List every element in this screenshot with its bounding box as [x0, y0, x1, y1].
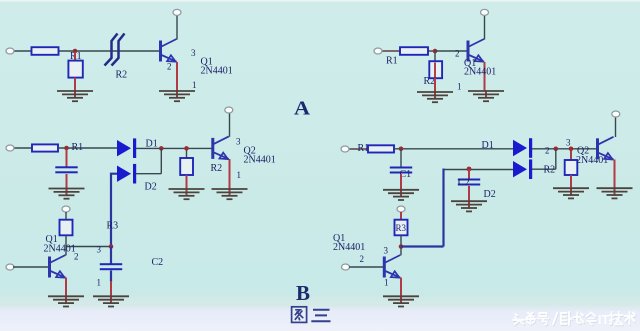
transistor Q1 (A-left)	[161, 39, 177, 62]
wire stem R top (B-right lower)	[400, 212, 402, 220]
svg-text:C2: C2	[458, 178, 470, 189]
resistor R1 (B-right)	[368, 145, 394, 152]
wire stem R bottom (B-right)	[570, 175, 572, 188]
node junction B-left	[64, 146, 69, 151]
resistor R1 (A-left)	[68, 61, 82, 78]
node junction R bias (B-right)	[569, 147, 574, 152]
wire D2 cathode (B-right)	[532, 168, 556, 170]
terminal collector Q1 (A-left)	[173, 9, 181, 15]
wire vertical D1-D2 (B-right)	[555, 149, 557, 169]
char 头	[513, 314, 524, 325]
wire stem R2 bottom (A-right)	[434, 78, 436, 92]
resistor bias (B-right)	[565, 160, 578, 175]
wire stem R2 top (A-right)	[434, 52, 436, 62]
diode D1 (B-right)	[513, 138, 532, 158]
wire collector Q2 (B-right)	[615, 116, 617, 137]
wire input B-left	[13, 147, 32, 149]
transistor Q1 (A-right)	[468, 39, 484, 62]
wire collector Q1 (B-right lower)	[400, 247, 402, 256]
svg-text:3: 3	[384, 246, 389, 256]
wire D2 cathode (B-left)	[136, 173, 161, 175]
node junction A-left	[73, 49, 78, 54]
slash	[553, 313, 558, 325]
capacitor C1 (B-left)	[55, 166, 77, 173]
wire stem R2 bottom (B-left)	[186, 175, 188, 189]
capacitor C1 (B-right)	[390, 167, 412, 174]
svg-text:2: 2	[455, 49, 460, 59]
svg-text:R2: R2	[544, 165, 556, 176]
svg-text:2: 2	[167, 62, 172, 72]
svg-text:1: 1	[237, 170, 242, 180]
terminal input A-right	[374, 48, 382, 54]
ground under Q1 (A-right)	[468, 91, 504, 101]
svg-text:A: A	[294, 98, 311, 120]
ground under Q1 (A-left)	[159, 91, 195, 101]
svg-text:2N4401: 2N4401	[576, 155, 608, 166]
svg-text:2N4401: 2N4401	[44, 243, 76, 254]
wire emitter Q1 to ground (B-left lower)	[65, 278, 67, 297]
node junction C2 (B-right)	[467, 167, 472, 172]
svg-text:1: 1	[384, 278, 389, 288]
wire stem C2 top (B-right)	[468, 169, 470, 179]
transistor Q2 (B-left)	[213, 136, 229, 159]
terminal input B-right	[341, 146, 349, 152]
resistor R2 symbol (A-left)	[105, 34, 125, 66]
terminal R top (B-left lower)	[62, 206, 70, 212]
wire resistor to node (B-left lower)	[65, 235, 67, 246]
ground under R1 (A-left)	[57, 91, 93, 101]
ground under Q2 (B-left)	[212, 189, 248, 199]
ground under R2 (B-left)	[169, 189, 205, 199]
svg-text:R2: R2	[211, 163, 223, 174]
char 号	[538, 313, 549, 325]
wire input A-right	[381, 50, 435, 52]
terminal input B-left	[6, 145, 14, 151]
wire emitter Q2 to ground (B-left)	[229, 159, 231, 189]
wire vertical feedback (B-right)	[442, 169, 444, 247]
capacitor C2 (B-right)	[458, 179, 480, 186]
wire emitter Q1 to ground (A-left)	[176, 62, 178, 91]
wire stem C2 bottom (B-right)	[468, 186, 470, 201]
svg-text:3: 3	[236, 137, 241, 147]
svg-text:R3: R3	[396, 223, 407, 233]
ground under Q1 (B-right lower)	[383, 296, 419, 306]
svg-text:3: 3	[97, 245, 102, 255]
resistor bias (B-right lower)	[395, 220, 408, 236]
wire node row (B-left lower)	[66, 246, 111, 248]
ground under C1 (B-right)	[383, 190, 419, 200]
char 会	[587, 313, 596, 325]
wire D1 cathode row (B-right)	[532, 148, 598, 150]
resistor R2 (A-right)	[429, 61, 442, 78]
svg-text:D2: D2	[145, 182, 157, 193]
svg-text:C2: C2	[152, 257, 164, 268]
terminal collector Q2 (B-left)	[225, 107, 233, 113]
char 龙	[574, 313, 584, 324]
wire stem through R2 (A-right)	[434, 63, 436, 78]
svg-text:B: B	[296, 281, 310, 305]
svg-text:1: 1	[192, 80, 197, 90]
svg-text:D2: D2	[484, 189, 496, 200]
wire stem R1 top (A-left)	[74, 52, 76, 61]
char 卧	[561, 312, 572, 325]
wire stem R2 top (B-left)	[186, 148, 188, 158]
node R2 junction (B-left)	[184, 146, 189, 151]
resistor series (A-left)	[32, 47, 59, 55]
resistor bias (B-left lower)	[60, 220, 73, 236]
diode D2 (B-right)	[513, 159, 532, 179]
node junction (B-right lower)	[399, 244, 404, 249]
wire stem R top (B-left lower)	[65, 212, 67, 220]
node junction A-right	[433, 49, 438, 54]
ground under Q1 (B-left lower)	[48, 296, 84, 306]
svg-text:R1: R1	[72, 142, 84, 153]
svg-text:2: 2	[74, 252, 79, 262]
terminal input (B-left lower)	[6, 264, 14, 270]
ground under R2 (A-right)	[417, 92, 453, 102]
resistor R1 (A-right)	[400, 47, 428, 55]
svg-text:3: 3	[566, 138, 571, 148]
diode D1 (B-left)	[117, 138, 136, 158]
capacitor C2 (B-left lower)	[100, 263, 122, 270]
svg-text:1: 1	[457, 82, 462, 92]
terminal R top (B-right lower)	[397, 206, 405, 212]
ground under C1 (B-left)	[49, 189, 85, 199]
wire stem C1 top (B-right)	[400, 149, 402, 167]
wire emitter Q2 to ground (B-right)	[614, 160, 616, 189]
svg-text:2N4401: 2N4401	[244, 155, 276, 166]
char 技	[610, 312, 623, 325]
node junction C1 (B-right)	[399, 147, 404, 152]
terminal collector Q2 (B-right)	[612, 111, 620, 117]
wire stem C1 top (B-left)	[66, 149, 68, 167]
wire stem C2 bottom (B-left lower)	[110, 271, 112, 283]
wire junction to base A-left	[58, 50, 160, 52]
wire stem C1 bottom (B-right)	[400, 174, 402, 190]
resistor series (B-left)	[32, 144, 58, 151]
transistor Q1 (B-right lower)	[384, 255, 400, 278]
svg-text:2N4401: 2N4401	[464, 67, 496, 78]
resistor R2 (B-left)	[180, 158, 193, 175]
terminal input A-left	[6, 48, 14, 54]
wire input base (B-left lower)	[13, 266, 50, 268]
diode D2 (B-left)	[117, 164, 136, 184]
wire resistor to node (B-right lower)	[400, 235, 402, 246]
bottom strip	[0, 296, 640, 331]
wire junction to base A-right	[435, 50, 468, 52]
node junction D1 out (B-right)	[554, 147, 559, 152]
svg-text:R1: R1	[386, 56, 398, 67]
ground under C2 (B-right)	[451, 201, 487, 211]
svg-text:IT: IT	[598, 313, 609, 327]
ground under Q2 (B-right)	[597, 188, 633, 198]
wire emitter Q1 to ground (A-right)	[484, 62, 486, 91]
svg-text:R2: R2	[116, 70, 128, 81]
wire collector Q1 (A-left)	[176, 14, 178, 40]
wire stem R1 bottom (A-left)	[74, 78, 76, 92]
transistor Q2 (B-right)	[598, 137, 614, 160]
svg-text:D1: D1	[482, 140, 494, 151]
wire input B-right	[348, 148, 369, 150]
wire D1 cathode to base (B-left)	[136, 147, 212, 149]
wire stem C2 top (B-left lower)	[110, 247, 112, 265]
wire stem R top (B-right)	[570, 149, 572, 160]
svg-text:3: 3	[191, 48, 196, 58]
node junction R3 (B-left lower)	[109, 244, 114, 249]
wire D2 anode to vertical (B-right)	[444, 169, 514, 171]
wire collector Q1 (A-right)	[484, 14, 486, 40]
ground under C2 (B-left lower)	[93, 296, 129, 306]
node D1-D2 junction (B-left)	[159, 146, 164, 151]
char 术	[625, 312, 635, 325]
svg-text:2N4401: 2N4401	[333, 242, 365, 253]
wire input A-left	[13, 50, 32, 52]
terminal input (B-right lower)	[342, 264, 350, 270]
transistor Q1 (B-left lower)	[50, 255, 66, 278]
wire collector Q1 (B-left lower)	[65, 247, 67, 256]
wire D2 anode corner (B-left)	[111, 174, 117, 247]
svg-text:R3: R3	[107, 221, 119, 232]
ground under R (B-right)	[553, 188, 589, 198]
watermark 头条号 / 卧龙会IT技术	[514, 313, 636, 326]
svg-text:2: 2	[545, 146, 550, 156]
wire vertical D1-D2 (B-left)	[160, 148, 162, 173]
svg-text:2: 2	[360, 254, 365, 264]
top edge light line	[0, 0, 640, 2]
wire junction to D1 (B-left)	[58, 147, 117, 149]
wire stem C1 bottom (B-left)	[66, 174, 68, 189]
svg-text:1: 1	[97, 278, 102, 288]
wire node row (B-right lower)	[401, 245, 444, 247]
wire collector Q2 (B-left)	[229, 112, 231, 137]
wire R1 to D1 (B-right)	[394, 148, 513, 150]
label 图三 (figure three)	[292, 307, 331, 323]
svg-text:2N4401: 2N4401	[201, 66, 233, 77]
terminal collector Q1 (A-right)	[481, 9, 489, 15]
wire input base (B-right lower)	[349, 266, 384, 268]
wire emitter Q1 to ground (B-right lower)	[400, 278, 402, 297]
char 条	[526, 313, 535, 325]
